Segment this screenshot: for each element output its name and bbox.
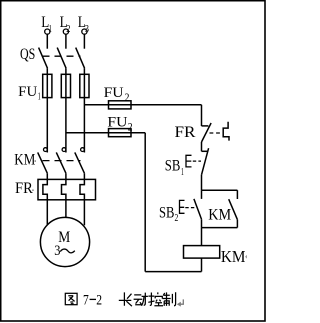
svg-text:SB: SB — [159, 204, 174, 221]
svg-text:2: 2 — [128, 122, 133, 134]
FR heater element 1 — [43, 179, 47, 199]
motor tilde — [60, 249, 75, 253]
caption pilcrow — [177, 299, 184, 306]
caption 图 glyph — [65, 293, 77, 304]
wire QS3 to FU1 — [83, 68, 85, 74]
svg-text:7: 7 — [83, 292, 89, 308]
wire L2 drop — [65, 34, 67, 48]
wire coil to bottom — [201, 258, 203, 272]
wire left control rail — [144, 133, 146, 272]
wire phase1 FU1 to KM — [46, 98, 48, 153]
svg-text:1: 1 — [38, 92, 41, 103]
SB2 actuator E — [180, 200, 185, 213]
contactor KM pole2 fixed hook — [62, 148, 66, 152]
terminal circle L1 — [45, 29, 50, 34]
caption 长 glyph — [119, 292, 132, 306]
wire KM3 to FR — [83, 173, 85, 180]
KM aux lower stub — [236, 220, 238, 228]
label SB2 — [159, 204, 178, 224]
wire right control rail top — [201, 105, 203, 126]
fuse FU1 pole3 — [80, 74, 89, 97]
wire L1 drop — [46, 34, 48, 48]
caption 制 glyph — [162, 292, 175, 306]
svg-text:QS: QS — [20, 46, 35, 63]
label SB1 — [165, 158, 184, 178]
KM aux upper stub — [236, 190, 238, 199]
fuse FU2 upper — [109, 101, 132, 109]
small pilcrow after coil label — [245, 255, 247, 259]
wire parallel branch top — [202, 189, 238, 191]
svg-text:1: 1 — [181, 167, 184, 178]
svg-text:KM: KM — [221, 247, 246, 266]
label L1 — [41, 14, 52, 35]
wire parallel branch bottom — [202, 227, 238, 229]
coil KM — [184, 246, 220, 259]
contactor KM pole3 blade — [75, 152, 85, 173]
terminal circle L3 — [82, 29, 87, 34]
wire control phase B — [66, 132, 145, 134]
KM aux NO contact blade — [229, 199, 238, 219]
label FU1 — [18, 84, 41, 103]
wire control phase A — [84, 104, 201, 106]
thermal relay FR box — [38, 179, 96, 199]
caption 7-2 — [83, 292, 102, 308]
svg-text:FR: FR — [15, 180, 33, 197]
wire bottom return — [145, 271, 201, 273]
dot after FR label — [32, 190, 33, 191]
FR heater element 2 — [62, 179, 66, 199]
dot after KM label — [35, 160, 36, 161]
SB1 NC contact tick — [202, 150, 208, 152]
FR NC contact blade — [202, 123, 212, 142]
FR NC contact tick — [202, 125, 209, 127]
FR heater element 3 — [80, 179, 84, 199]
label FU2 lower — [107, 115, 132, 134]
SB1 NC contact blade — [202, 148, 209, 175]
wire FR to SB1 — [201, 142, 203, 151]
wire QS1 to FU1 — [46, 68, 48, 74]
svg-text:SB: SB — [165, 158, 181, 175]
wire SB1 to junction — [201, 175, 203, 190]
motor M circle — [40, 217, 89, 266]
wire L3 drop — [83, 34, 85, 48]
svg-text:FU: FU — [104, 85, 125, 101]
label L2 — [60, 14, 71, 35]
contactor KM pole1 blade — [38, 152, 48, 173]
svg-text:2: 2 — [175, 213, 179, 224]
SB1 linkage dashed — [193, 160, 201, 162]
svg-text:KM: KM — [14, 152, 35, 169]
label L3 — [78, 14, 90, 35]
svg-text:3: 3 — [54, 243, 60, 259]
wire FR2 to motor — [65, 200, 67, 218]
fuse FU1 pole1 — [43, 74, 52, 97]
FR trip linkage dashed — [210, 132, 223, 134]
svg-text:2: 2 — [96, 292, 102, 308]
caption 控 glyph — [148, 292, 163, 305]
switch QS pole 3 blade — [76, 48, 85, 69]
fuse FU2 lower — [109, 129, 132, 137]
contactor KM pole2 blade — [56, 152, 66, 173]
wire QS2 to FU1 — [65, 68, 67, 74]
fuse FU1 pole2 — [61, 74, 70, 97]
wire junction to coil — [201, 228, 203, 246]
svg-text:FR: FR — [175, 124, 197, 141]
label FU2 upper — [104, 85, 130, 104]
SB2 linkage dashed — [185, 207, 196, 209]
wire KM2 to FR — [65, 173, 67, 180]
caption 动 glyph — [134, 293, 148, 306]
switch QS pole 2 blade — [57, 48, 66, 69]
svg-text:KM: KM — [208, 206, 231, 223]
wire KM1 to FR — [46, 173, 48, 180]
SB1 actuator E — [186, 155, 192, 167]
wire phase2 FU1 to KM (junction to FU2b) — [65, 98, 67, 153]
wire phase3 FU1 to KM (junction to FU2a) — [83, 98, 85, 153]
contactor KM pole3 fixed hook — [81, 148, 85, 152]
wire FR3 to motor — [83, 200, 85, 226]
SB2 upper stub — [201, 190, 203, 199]
switch QS pole 1 blade — [39, 48, 48, 69]
terminal circle L2 — [63, 29, 68, 34]
svg-text:2: 2 — [125, 92, 130, 104]
svg-text:FU: FU — [18, 84, 38, 100]
wire FR1 to motor — [46, 200, 48, 225]
SB2 NO contact blade — [194, 199, 202, 219]
FR trip element — [223, 122, 229, 141]
KM linkage dashed — [43, 160, 81, 162]
SB2 lower stub — [201, 219, 203, 227]
QS linkage dashed — [43, 55, 81, 57]
contactor KM pole1 fixed hook — [44, 148, 48, 152]
